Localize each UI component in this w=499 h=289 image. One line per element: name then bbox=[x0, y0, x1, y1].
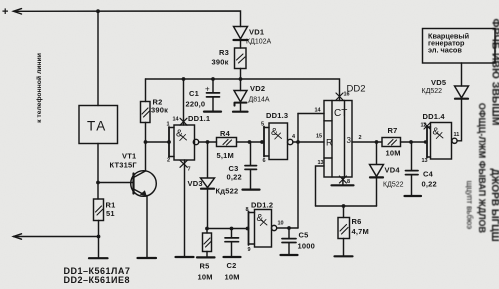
pin 14 cross bbox=[180, 118, 187, 125]
svg-text:2: 2 bbox=[167, 158, 170, 164]
diode VD4 bbox=[376, 142, 378, 164]
ground under VT1 emitter bbox=[138, 257, 157, 259]
junction C2 bbox=[230, 227, 234, 231]
collector VT1 bbox=[134, 142, 146, 178]
svg-text:0,22: 0,22 bbox=[422, 180, 437, 189]
svg-text:C2: C2 bbox=[227, 261, 237, 270]
box quartz clock generator bbox=[423, 29, 496, 64]
svg-text:DD1.4: DD1.4 bbox=[423, 112, 446, 121]
wire bottom timing node bbox=[207, 228, 249, 230]
pin12 cross bbox=[424, 123, 430, 129]
box TA telephone set bbox=[79, 106, 118, 144]
svg-text:10М: 10М bbox=[225, 273, 240, 282]
resistor R6 bbox=[343, 206, 345, 218]
label C1 bbox=[186, 89, 206, 109]
svg-text:VD2: VD2 bbox=[250, 84, 265, 93]
svg-text:VD3: VD3 bbox=[188, 179, 203, 188]
svg-text:R: R bbox=[326, 138, 333, 148]
label R4 bbox=[217, 129, 234, 160]
svg-text:DD2–К561ИЕ8: DD2–К561ИЕ8 bbox=[64, 275, 131, 285]
svg-text:DD1.1: DD1.1 bbox=[188, 114, 210, 123]
label VD1 bbox=[246, 28, 271, 46]
counter DD2 bbox=[347, 84, 366, 95]
svg-text:10М: 10М bbox=[386, 149, 401, 158]
wire TA to R1 bbox=[97, 144, 99, 200]
ground under DD2 bbox=[332, 184, 354, 186]
label C4 bbox=[422, 170, 437, 189]
junction C3 bbox=[248, 140, 252, 144]
wire supply rail (regulated) bbox=[146, 79, 340, 101]
resistor R2 bbox=[145, 79, 147, 102]
svg-text:13: 13 bbox=[422, 158, 428, 164]
ground under R6 bbox=[335, 255, 353, 257]
svg-text:эл. часов: эл. часов bbox=[428, 46, 462, 55]
ground under R1 bbox=[89, 257, 108, 259]
junction with vertical link bbox=[296, 140, 300, 144]
svg-text:R6: R6 bbox=[352, 217, 362, 226]
diode VD1 bbox=[234, 27, 248, 39]
gate DD1.4 bbox=[423, 112, 446, 121]
label R5 bbox=[198, 262, 213, 282]
svg-text:VD4: VD4 bbox=[385, 166, 401, 175]
ground under C5 bbox=[281, 254, 298, 256]
svg-text:R5: R5 bbox=[200, 262, 210, 271]
svg-text:14: 14 bbox=[315, 108, 322, 114]
label R2 bbox=[151, 98, 168, 115]
svg-text:C5: C5 bbox=[299, 231, 309, 240]
label C3 bbox=[227, 164, 242, 182]
ground under R5 bbox=[197, 256, 215, 258]
svg-text:VD1: VD1 bbox=[249, 28, 264, 37]
junction DD1.2 input bbox=[246, 227, 250, 231]
label VD5 bbox=[422, 78, 447, 95]
svg-text:5: 5 bbox=[261, 122, 264, 128]
input bar DD1.4 bbox=[426, 126, 428, 158]
svg-text:390к: 390к bbox=[151, 106, 168, 115]
svg-text:ТА: ТА bbox=[87, 119, 107, 134]
svg-text:2: 2 bbox=[359, 135, 362, 141]
diode VD5 bbox=[455, 86, 469, 98]
svg-text:390к: 390к bbox=[212, 58, 229, 67]
wire DD1.4 out up to VD5 bbox=[457, 99, 461, 141]
svg-text:4,7М: 4,7М bbox=[352, 227, 369, 236]
svg-text:+: + bbox=[205, 85, 210, 94]
diode VD3 bbox=[207, 142, 209, 178]
junction rail/C1 bbox=[211, 77, 215, 81]
plus terminal label bbox=[2, 6, 8, 18]
output circle DD1.1 pin 3 bbox=[193, 139, 198, 144]
ground under C1 bbox=[204, 110, 221, 112]
resistor R7 bbox=[382, 138, 401, 147]
label C2 bbox=[225, 261, 240, 282]
junction bottom terminal bbox=[97, 235, 101, 239]
svg-text:R7: R7 bbox=[388, 126, 398, 135]
watermark right column A bbox=[465, 19, 499, 242]
ground under C4 bbox=[405, 195, 422, 197]
svg-text:220,0: 220,0 bbox=[186, 100, 206, 109]
gate DD1.2 bbox=[251, 201, 273, 210]
svg-text:C4: C4 bbox=[423, 170, 434, 179]
junction base node bbox=[96, 181, 100, 185]
svg-text:1000: 1000 bbox=[298, 242, 316, 251]
ground under C2 bbox=[224, 256, 241, 258]
label DD1.1 bbox=[188, 114, 210, 123]
junction rail/R3 VD2 bbox=[239, 77, 243, 81]
resistor R4 bbox=[217, 138, 237, 147]
wire DD1.2 out bbox=[277, 227, 298, 229]
capacitor C5 bbox=[288, 228, 290, 238]
svg-text:КД522: КД522 bbox=[422, 88, 443, 95]
svg-text:щцупт вьбюэ: щцупт вьбюэ bbox=[465, 181, 474, 229]
svg-text:16: 16 bbox=[344, 92, 350, 98]
wire DD2 pin14 bbox=[298, 113, 324, 115]
wire R4 to DD1.3 bbox=[237, 141, 265, 143]
svg-text:VT1: VT1 bbox=[122, 152, 136, 161]
resistor R5 bbox=[206, 229, 208, 234]
junction at DD1.1 input bar bbox=[167, 140, 171, 144]
pin8 ground bbox=[342, 177, 344, 185]
wire vertical link CP/feedback bbox=[297, 114, 299, 229]
wire DD1.1 pin14 to rail bbox=[183, 79, 185, 125]
svg-text:1: 1 bbox=[167, 122, 170, 128]
pin16 cross bbox=[336, 93, 343, 100]
wire TA branch bbox=[97, 11, 99, 105]
resistor R3 bbox=[235, 48, 247, 69]
label R6 bbox=[352, 217, 369, 236]
pin 7 ground line DD1.1 bbox=[184, 160, 186, 256]
gate DD1.1 bbox=[174, 125, 195, 160]
wire bottom terminal bbox=[14, 237, 99, 258]
svg-text:R4: R4 bbox=[220, 129, 231, 138]
junction rail/DD1 pin14 bbox=[182, 77, 186, 81]
capacitor C3 bbox=[250, 142, 252, 165]
input bar DD1.2 bbox=[248, 212, 250, 246]
gate DD1.3 bbox=[266, 111, 288, 120]
svg-text:Д814А: Д814А bbox=[249, 97, 270, 104]
emitter VT1 with arrow bbox=[134, 189, 148, 257]
junction DD1.3 input bbox=[260, 140, 264, 144]
svg-text:6: 6 bbox=[263, 158, 266, 164]
wire base bbox=[98, 182, 133, 184]
wire DD1.3 out to DD2 R bbox=[293, 141, 324, 143]
label VD3 bbox=[188, 179, 239, 196]
zener VD2 bbox=[240, 79, 242, 91]
output circle DD1.3 pin 4 bbox=[288, 139, 293, 144]
junction C4/DD1.4 bbox=[409, 140, 413, 144]
wire base node bbox=[146, 141, 170, 143]
svg-text:10: 10 bbox=[278, 221, 284, 227]
resistor R1 bbox=[94, 199, 104, 221]
svg-text:10М: 10М bbox=[198, 273, 213, 282]
ground for DD1.1 pin7 bbox=[176, 256, 194, 258]
label VD4 bbox=[383, 166, 404, 189]
output circle DD1.2 pin 10 bbox=[272, 225, 277, 230]
svg-text:C1: C1 bbox=[189, 89, 199, 98]
label R1 bbox=[106, 201, 116, 219]
svg-text:12: 12 bbox=[421, 123, 427, 129]
junction top rail / TA branch bbox=[96, 9, 100, 13]
arrow terminal top left bbox=[14, 9, 22, 14]
wire R7 to DD1.4 bbox=[401, 141, 428, 143]
wire feedback to R6 bbox=[316, 205, 377, 207]
svg-text:к телефонной линии: к телефонной линии bbox=[35, 53, 43, 123]
svg-text:3: 3 bbox=[347, 136, 352, 145]
svg-text:5,1М: 5,1М bbox=[217, 151, 234, 160]
svg-text:DD1.2: DD1.2 bbox=[251, 201, 273, 210]
wire top rail bbox=[14, 11, 241, 27]
svg-text:ФРЧБ-ИВЮ ЗВЫШМ: ФРЧБ-ИВЮ ЗВЫШМ bbox=[490, 19, 499, 126]
svg-text:0,22: 0,22 bbox=[227, 173, 242, 182]
svg-text:15: 15 bbox=[316, 134, 322, 140]
svg-text:9: 9 bbox=[248, 247, 251, 253]
svg-text:ОФЩЦ-ЛЖМ ФЫВАП ЖДЛОВ: ОФЩЦ-ЛЖМ ФЫВАП ЖДЛОВ bbox=[477, 103, 487, 234]
svg-text:VD5: VD5 bbox=[431, 78, 446, 87]
wire DD1.1 out to R4 bbox=[199, 141, 217, 143]
label VD2 bbox=[249, 84, 270, 104]
capacitor C1 bbox=[212, 79, 214, 92]
output circle DD1.4 pin 11 bbox=[452, 138, 457, 143]
svg-text:8: 8 bbox=[246, 207, 249, 213]
svg-text:КТ315Г: КТ315Г bbox=[110, 161, 138, 170]
svg-text:КД522: КД522 bbox=[383, 182, 404, 189]
junction VD3 bbox=[206, 140, 210, 144]
label VT1 bbox=[110, 152, 138, 170]
svg-text:13: 13 bbox=[318, 160, 324, 166]
label C5 bbox=[298, 231, 316, 251]
junction VD4 bbox=[375, 140, 379, 144]
wire DD2 out to R7 bbox=[352, 141, 382, 143]
junction R6 bbox=[342, 204, 346, 208]
ground under C3 bbox=[243, 189, 260, 191]
label R3 bbox=[212, 48, 230, 67]
svg-text:51: 51 bbox=[106, 209, 115, 218]
svg-text:Кд522: Кд522 bbox=[216, 187, 239, 196]
svg-text:&: & bbox=[257, 213, 264, 224]
arrow terminal bottom left bbox=[14, 234, 22, 239]
junction R2/VT1/DD1.1 bbox=[144, 140, 148, 144]
svg-text:7: 7 bbox=[188, 167, 191, 173]
pin13 wire bbox=[316, 166, 325, 206]
capacitor C2 bbox=[231, 229, 233, 238]
svg-text:КД102А: КД102А bbox=[246, 39, 271, 46]
input bar DD1.3 bbox=[263, 127, 265, 157]
svg-text:8: 8 bbox=[347, 179, 350, 185]
svg-text:+: + bbox=[2, 6, 8, 18]
svg-text:CT: CT bbox=[334, 108, 347, 119]
input bar DD1.1 bbox=[168, 127, 170, 157]
transistor VT1 bbox=[131, 171, 157, 197]
ground under VD2 bbox=[233, 111, 248, 113]
junction R5/VD3 bbox=[205, 227, 209, 231]
svg-text:DD1.3: DD1.3 bbox=[266, 111, 288, 120]
junction input bbox=[424, 140, 427, 143]
svg-text:14: 14 bbox=[173, 117, 180, 123]
junction C5 bbox=[287, 226, 291, 230]
svg-text:11: 11 bbox=[454, 132, 460, 138]
svg-text:R3: R3 bbox=[219, 48, 229, 57]
capacitor C4 bbox=[411, 142, 413, 170]
svg-text:ДЖОРВ ЫГЦШ: ДЖОРВ ЫГЦШ bbox=[489, 168, 499, 241]
